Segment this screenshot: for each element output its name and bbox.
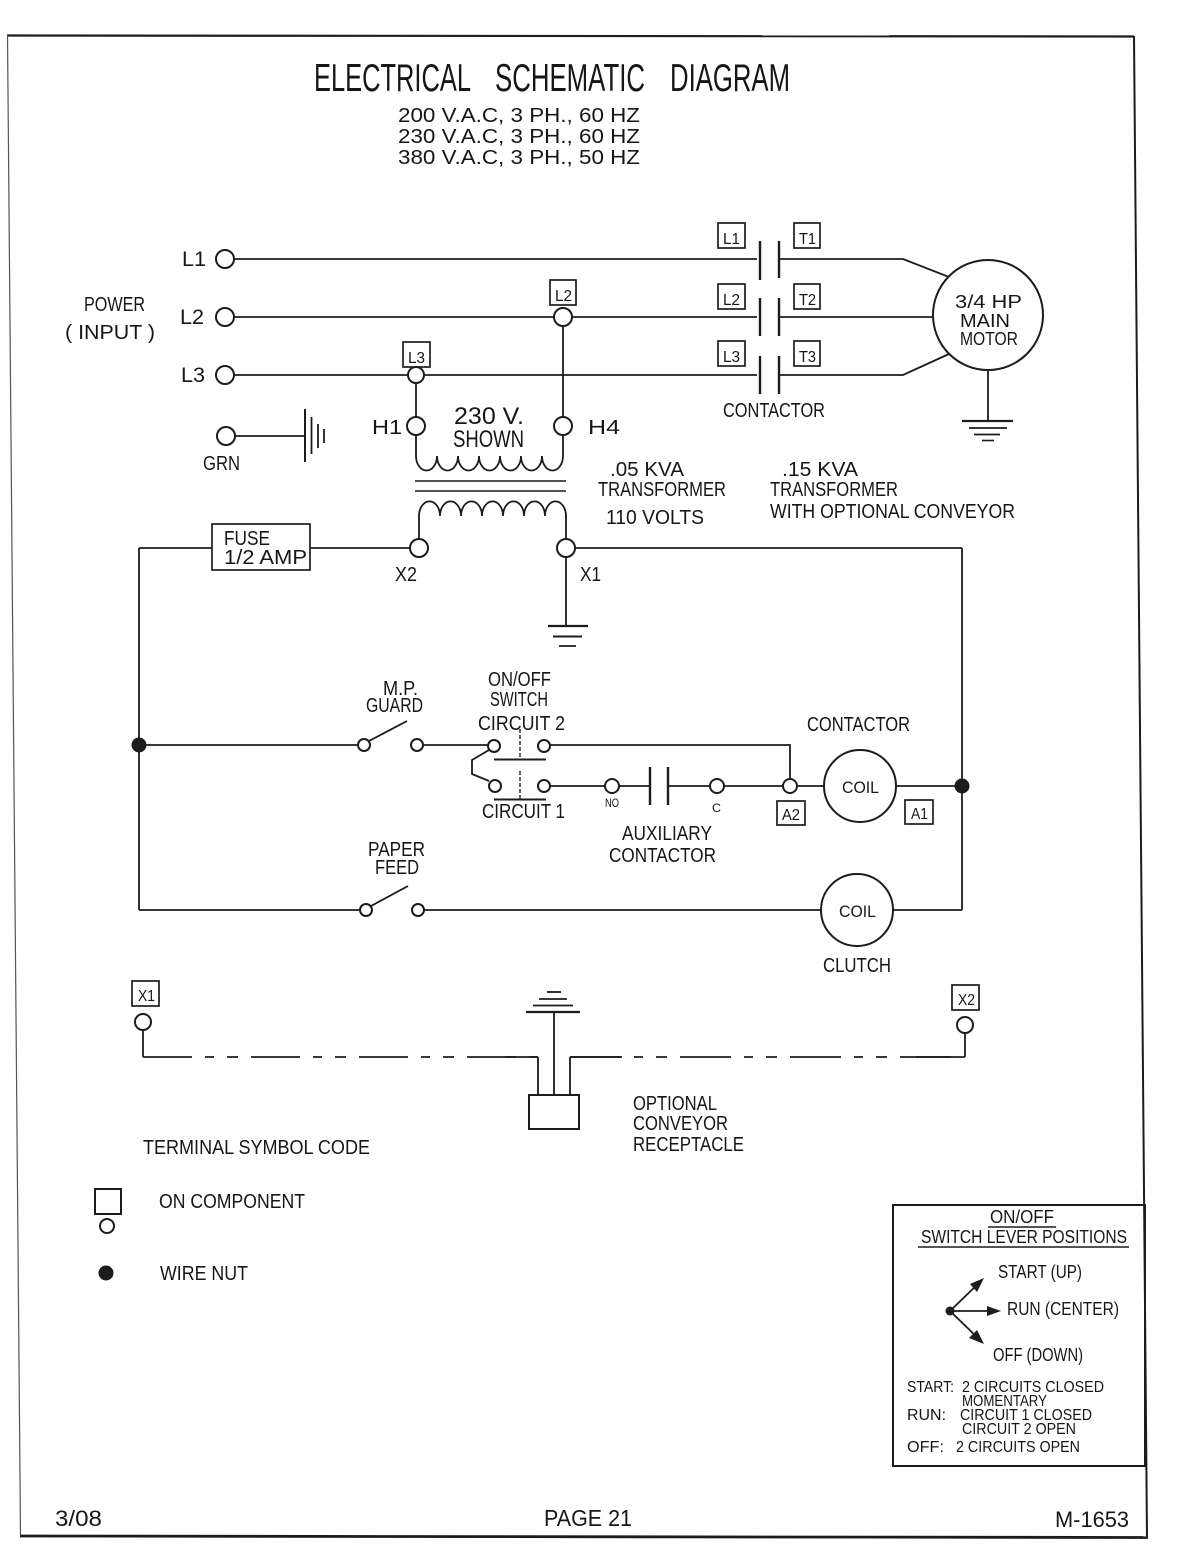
- wire paper feed to clutch coil: [424, 909, 821, 911]
- lever arrow off (down): [950, 1311, 984, 1344]
- ground (X1): [548, 626, 588, 646]
- svg-text:CLUTCH: CLUTCH: [823, 955, 891, 977]
- wire X1 to ground: [565, 557, 567, 626]
- svg-text:230 V.A.C, 3 PH., 60 HZ: 230 V.A.C, 3 PH., 60 HZ: [398, 126, 640, 148]
- label ON/OFF SWITCH: [488, 669, 551, 711]
- svg-text:X2: X2: [958, 992, 975, 1009]
- lever pivot dot: [946, 1307, 955, 1316]
- svg-text:110 VOLTS: 110 VOLTS: [606, 507, 704, 529]
- label POWER (INPUT): [65, 294, 155, 344]
- ground chassis (GRN): [305, 409, 324, 462]
- lever arrow start (up): [950, 1278, 984, 1311]
- svg-text:X1: X1: [138, 988, 155, 1005]
- wire T3 to motor: [779, 354, 949, 375]
- switch circuit 1 contacts: [489, 771, 550, 800]
- svg-text:GUARD: GUARD: [366, 695, 423, 717]
- wire A2 to coil: [797, 785, 824, 787]
- switch M.P. GUARD: [358, 678, 423, 751]
- label AUXILIARY CONTACTOR: [609, 823, 716, 867]
- svg-text:ON COMPONENT: ON COMPONENT: [159, 1191, 305, 1213]
- svg-text:.15 KVA: .15 KVA: [782, 459, 859, 481]
- wire X2 drop: [964, 1033, 966, 1057]
- svg-text:SHOWN: SHOWN: [453, 426, 524, 453]
- transformer T1 core: [415, 481, 566, 491]
- wire left rail: [138, 548, 140, 910]
- box label T1: [794, 223, 820, 248]
- wire aux contact to C terminal: [668, 785, 710, 787]
- wire ground stem to receptacle: [553, 1012, 555, 1095]
- node L3 tap on transformer: [403, 342, 430, 383]
- node L2 tap on transformer: [550, 280, 576, 326]
- svg-text:AUXILIARY: AUXILIARY: [622, 823, 712, 845]
- wire T1 to motor: [779, 259, 949, 277]
- wire L2: [234, 316, 757, 318]
- svg-text:ON/OFF: ON/OFF: [488, 669, 551, 691]
- svg-text:OFF (DOWN): OFF (DOWN): [993, 1345, 1083, 1365]
- svg-text:1/2 AMP: 1/2 AMP: [224, 547, 307, 569]
- wire C to A2: [724, 785, 783, 787]
- mechanical link circuits 1-2: [472, 750, 489, 781]
- wire circuit 2 to A2: [550, 745, 790, 779]
- svg-text:TRANSFORMER: TRANSFORMER: [598, 479, 726, 501]
- svg-text:200 V.A.C, 3 PH., 60 HZ: 200 V.A.C, 3 PH., 60 HZ: [398, 105, 640, 127]
- wire L1: [234, 258, 757, 260]
- svg-text:SWITCH LEVER POSITIONS: SWITCH LEVER POSITIONS: [921, 1227, 1127, 1247]
- wire X1 to right rail: [575, 547, 962, 549]
- box label L2: [718, 284, 745, 309]
- svg-text:2 CIRCUITS OPEN: 2 CIRCUITS OPEN: [956, 1439, 1080, 1456]
- wire X1 drop: [142, 1030, 144, 1057]
- svg-text:X1: X1: [580, 564, 601, 586]
- svg-text:TERMINAL SYMBOL CODE: TERMINAL SYMBOL CODE: [143, 1137, 370, 1159]
- auxiliary contactor contact: [650, 767, 668, 805]
- svg-text:MAIN: MAIN: [960, 311, 1010, 331]
- wire NO to aux contact: [619, 785, 650, 787]
- svg-text:CIRCUIT 2 OPEN: CIRCUIT 2 OPEN: [962, 1421, 1076, 1438]
- svg-text:L2: L2: [180, 306, 204, 329]
- legend on-component circle: [100, 1219, 114, 1233]
- wire fuse to X2: [310, 547, 410, 549]
- contactor pole 2 (L2/T2): [760, 298, 779, 336]
- svg-text:CONTACTOR: CONTACTOR: [609, 845, 716, 867]
- transformer T1 primary winding: [416, 435, 563, 471]
- svg-text:T1: T1: [799, 231, 816, 248]
- svg-text:MOTOR: MOTOR: [960, 329, 1018, 349]
- svg-text:CIRCUIT 2: CIRCUIT 2: [478, 713, 565, 735]
- svg-text:CONTACTOR: CONTACTOR: [723, 400, 825, 422]
- terminal X2 (bottom right): [952, 985, 979, 1033]
- switch circuit 2 contacts: [488, 729, 550, 760]
- svg-text:L3: L3: [723, 349, 740, 366]
- svg-text:RECEPTACLE: RECEPTACLE: [633, 1134, 744, 1156]
- wire nut (left rail / control row 1): [132, 738, 147, 753]
- wire dashed conveyor line (left): [143, 1056, 538, 1058]
- svg-text:OPTIONAL: OPTIONAL: [633, 1093, 717, 1115]
- wire L3: [234, 374, 757, 376]
- svg-text:380 V.A.C, 3 PH., 50 HZ: 380 V.A.C, 3 PH., 50 HZ: [398, 147, 640, 169]
- node L1 terminal: [182, 248, 234, 271]
- wire left rail to paper feed switch: [139, 909, 360, 911]
- svg-text:CIRCUIT 1: CIRCUIT 1: [482, 801, 565, 823]
- note RUN condition: [907, 1407, 1092, 1438]
- svg-text:T3: T3: [799, 349, 816, 366]
- svg-text:H1: H1: [372, 417, 402, 439]
- svg-text:NO: NO: [605, 796, 619, 810]
- label .05 KVA TRANSFORMER 110 VOLTS: [598, 459, 726, 529]
- legend wire nut dot: [99, 1266, 114, 1281]
- wire dashed conveyor line (right): [570, 1056, 965, 1058]
- title: [314, 57, 790, 100]
- wire left rail to M.P. guard switch: [139, 744, 358, 746]
- svg-text:WIRE NUT: WIRE NUT: [160, 1263, 248, 1285]
- label .15 KVA TRANSFORMER WITH OPTIONAL CONVEYOR: [770, 459, 1015, 523]
- svg-text:3/4 HP: 3/4 HP: [955, 292, 1022, 312]
- svg-text:L1: L1: [723, 231, 740, 248]
- note OFF condition: [907, 1439, 1080, 1456]
- svg-text:DIAGRAM: DIAGRAM: [670, 57, 790, 100]
- wire clutch coil to right rail: [893, 909, 962, 911]
- terminal H4: [554, 417, 620, 439]
- on/off switch lever positions box: [893, 1205, 1145, 1466]
- node L3 terminal: [181, 364, 234, 387]
- svg-text:A2: A2: [782, 807, 800, 824]
- wire coil to right rail: [896, 785, 962, 787]
- wire T2 to motor: [779, 316, 933, 318]
- ground (conveyor receptacle): [526, 992, 580, 1012]
- box label L3: [718, 341, 745, 366]
- svg-text:T2: T2: [799, 292, 816, 309]
- svg-text:POWER: POWER: [84, 294, 145, 316]
- wire L3 tap to H1: [415, 384, 417, 417]
- label 230 V. SHOWN: [453, 403, 524, 453]
- note START condition: [907, 1379, 1104, 1410]
- svg-text:RUN:: RUN:: [907, 1407, 946, 1424]
- motor M1: [933, 260, 1043, 370]
- node L2 terminal: [180, 306, 234, 329]
- transformer T1 secondary winding: [419, 501, 566, 539]
- svg-text:FEED: FEED: [375, 857, 419, 879]
- svg-text:X2: X2: [395, 564, 417, 586]
- terminal X1 (bottom left): [132, 981, 159, 1030]
- svg-text:RUN (CENTER): RUN (CENTER): [1007, 1299, 1119, 1319]
- svg-text:START (UP): START (UP): [998, 1262, 1082, 1282]
- box label L1: [718, 223, 745, 248]
- svg-text:L3: L3: [408, 350, 425, 367]
- svg-text:H4: H4: [588, 417, 620, 439]
- svg-text:TRANSFORMER: TRANSFORMER: [770, 479, 898, 501]
- svg-text:C: C: [712, 801, 721, 815]
- box label T2: [794, 284, 820, 309]
- terminal A2: [777, 779, 805, 825]
- clutch coil: [821, 874, 893, 977]
- svg-text:L2: L2: [555, 288, 572, 305]
- label A1: [905, 800, 933, 824]
- svg-text:SCHEMATIC: SCHEMATIC: [495, 57, 645, 100]
- svg-text:A1: A1: [911, 806, 928, 823]
- svg-text:L3: L3: [181, 364, 205, 387]
- svg-text:M-1653: M-1653: [1055, 1507, 1129, 1532]
- terminal NO: [605, 779, 619, 810]
- box label T3: [794, 341, 820, 366]
- wire M.P. guard to on/off switch: [423, 744, 488, 746]
- terminal X2 of transformer: [395, 539, 428, 586]
- svg-text:SWITCH: SWITCH: [490, 689, 548, 711]
- svg-text:ELECTRICAL: ELECTRICAL: [314, 57, 471, 100]
- svg-text:CONVEYOR: CONVEYOR: [633, 1113, 728, 1135]
- wire receptacle right lead: [569, 1057, 571, 1095]
- wire motor to ground: [987, 370, 989, 421]
- svg-text:OFF:: OFF:: [907, 1439, 944, 1456]
- label ON/OFF (box heading): [988, 1207, 1056, 1227]
- svg-text:COIL: COIL: [839, 902, 876, 921]
- svg-text:L2: L2: [723, 292, 740, 309]
- contactor pole 1 (L1/T1): [760, 241, 779, 280]
- svg-text:WITH OPTIONAL CONVEYOR: WITH OPTIONAL CONVEYOR: [770, 501, 1015, 523]
- svg-text:COIL: COIL: [842, 778, 879, 797]
- optional conveyor receptacle: [529, 1093, 744, 1156]
- contactor coil: [824, 750, 896, 822]
- wire solid stubs at receptacle and X2 corner: [505, 1056, 965, 1058]
- legend on-component square: [95, 1189, 121, 1214]
- wire L2 tap to H4: [562, 326, 564, 417]
- svg-text:CONTACTOR: CONTACTOR: [807, 714, 910, 736]
- svg-text:L1: L1: [182, 248, 206, 271]
- label PAPER FEED: [368, 839, 425, 879]
- switch PAPER FEED: [360, 886, 424, 916]
- wire right rail: [961, 548, 963, 910]
- svg-text:.05 KVA: .05 KVA: [610, 459, 685, 481]
- svg-text:( INPUT ): ( INPUT ): [65, 322, 155, 344]
- terminal H1: [372, 417, 425, 439]
- svg-text:PAGE 21: PAGE 21: [544, 1505, 632, 1531]
- fuse F1: [212, 524, 310, 570]
- svg-text:ON/OFF: ON/OFF: [990, 1207, 1054, 1227]
- wire fuse to left rail: [139, 547, 212, 549]
- contactor pole 3 (L3/T3): [760, 356, 779, 394]
- ground (motor): [962, 421, 1013, 441]
- svg-text:START:: START:: [907, 1379, 954, 1396]
- terminal X1 of transformer: [557, 539, 601, 586]
- wire nut (right rail): [955, 779, 970, 794]
- wire circuit 1 to NO terminal: [550, 785, 605, 787]
- lever arrow run (center): [950, 1306, 1001, 1316]
- label SWITCH LEVER POSITIONS: [918, 1227, 1129, 1247]
- terminal C: [710, 779, 724, 815]
- wire receptacle left lead: [537, 1057, 539, 1095]
- svg-text:3/08: 3/08: [55, 1506, 102, 1531]
- svg-text:GRN: GRN: [203, 453, 240, 475]
- wire GRN to ground: [235, 435, 304, 437]
- node GRN terminal: [203, 427, 240, 475]
